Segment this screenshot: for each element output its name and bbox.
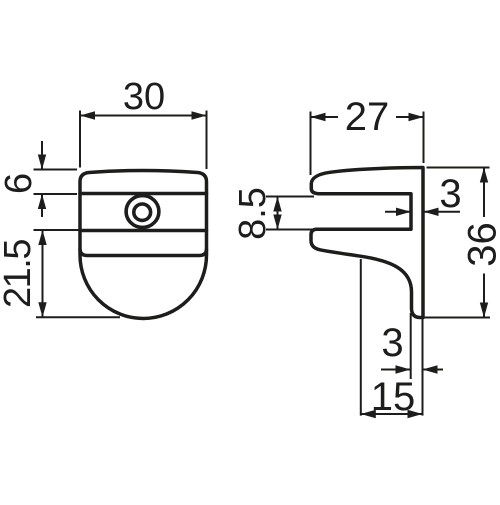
hole inner ring [134, 204, 151, 220]
dim 36 dimension line top segment [483, 168, 485, 218]
dim 15 extension line left [360, 259, 362, 416]
dim 8.5 arrowhead top [273, 197, 281, 212]
svg-text:15: 15 [371, 375, 416, 419]
front view outline [80, 171, 207, 319]
dim 3 leg arrowhead right [423, 365, 438, 373]
dim 21.5 extension line top [34, 229, 80, 231]
dim 36 arrowhead top [480, 168, 488, 183]
dim 15 arrowhead right [408, 410, 423, 418]
dim 8.5 extension line bottom [266, 229, 314, 231]
dim 3 leg stem right [423, 369, 444, 371]
dim 15 extension line right [422, 318, 424, 416]
dim 27 arrowhead right [409, 113, 424, 121]
dim 8.5 extension line top [266, 196, 314, 198]
dim 3 slot arrowhead [396, 208, 411, 216]
dim 36 extension line bottom [419, 317, 490, 319]
hole outer ring [126, 196, 159, 228]
front view line A [80, 192, 207, 196]
dim 6 arrowhead bottom [38, 194, 46, 209]
dim 30 dimension line [80, 115, 207, 117]
dim 27 dimension line left segment [311, 116, 339, 118]
svg-text:8.5: 8.5 [232, 187, 274, 240]
dim 3 leg extension line left [410, 313, 412, 379]
dim 21.5 dimension line [42, 230, 44, 317]
dim 3 slot stem left [385, 211, 411, 213]
dim 6 arrowhead top [38, 155, 46, 170]
dim 36 extension line top [427, 167, 490, 169]
dim 6 arrow stem top [41, 141, 43, 170]
dim 27 extension line left [310, 112, 312, 176]
dim 3 slot arrowhead right [424, 208, 439, 216]
dim 27 extension line right [423, 112, 425, 164]
dim 3 leg stem left [381, 369, 411, 371]
dim 6 extension line bottom [34, 193, 78, 195]
dim 15 dimension line [361, 413, 423, 415]
front view line C [80, 250, 207, 256]
svg-text:27: 27 [345, 95, 390, 139]
dim 21.5 arrowhead bottom [38, 302, 46, 317]
dim 6 arrow stem bottom [41, 194, 43, 217]
dim 21.5 arrowhead top [38, 230, 46, 245]
svg-text:21.5: 21.5 [0, 240, 39, 308]
dim 21.5 extension line bottom [36, 316, 120, 318]
svg-text:3: 3 [439, 172, 461, 216]
dim 15 arrowhead left [361, 410, 376, 418]
dim 30 extension line left [79, 111, 81, 168]
dim 3 leg arrowhead left [396, 365, 411, 373]
svg-text:36: 36 [461, 222, 500, 267]
dim 30 arrowhead left [80, 111, 95, 119]
dim 36 dimension line bottom segment [483, 274, 485, 318]
svg-text:30: 30 [123, 76, 165, 118]
side view outline [311, 168, 423, 318]
front view line B [80, 229, 207, 233]
dim 36 arrowhead bottom [480, 303, 488, 318]
dim 27 dimension line right segment [396, 116, 424, 118]
dim 6 extension line top [34, 169, 78, 171]
dim 8.5 arrow stem [277, 197, 279, 230]
svg-text:6: 6 [0, 173, 40, 194]
dim 30 extension line right [206, 111, 208, 170]
dim 30 arrowhead right [192, 111, 207, 119]
dim 27 arrowhead left [311, 113, 326, 121]
dim 3 slot stem right [424, 211, 461, 213]
dim 8.5 arrowhead bottom [273, 215, 281, 230]
svg-text:3: 3 [381, 321, 403, 365]
